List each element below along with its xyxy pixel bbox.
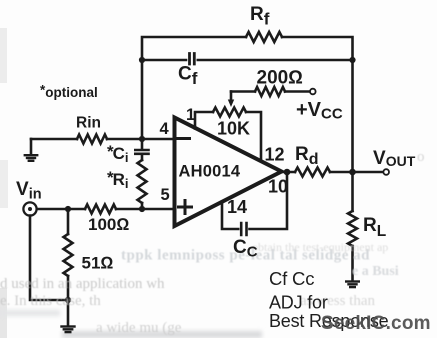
capacitor Ci <box>135 139 148 160</box>
svg-text:AH0014: AH0014 <box>179 163 241 181</box>
wire: Cf feedback line <box>142 59 353 62</box>
node: Ri bottom junction <box>139 206 145 212</box>
resistor 100ohm <box>85 205 116 214</box>
svg-text:Rin: Rin <box>76 115 101 132</box>
svg-text:5: 5 <box>161 186 170 204</box>
svg-text:SeekIC.com: SeekIC.com <box>321 313 431 334</box>
ground: below RL <box>346 280 359 282</box>
wire: to Vout terminal <box>353 171 384 174</box>
resistor Rd <box>295 168 330 177</box>
svg-text:Cf Cc: Cf Cc <box>269 268 314 289</box>
svg-text:10K: 10K <box>217 119 250 139</box>
node: output junction at pin 10 <box>284 169 291 176</box>
resistor 10K potentiometer body <box>213 108 246 117</box>
resistor Rf <box>246 32 282 42</box>
svg-text:51Ω: 51Ω <box>82 254 114 273</box>
node: Vin split junction <box>65 206 71 212</box>
svg-text:4: 4 <box>160 120 170 138</box>
svg-text:10: 10 <box>268 177 288 197</box>
resistor RL <box>351 172 354 211</box>
resistor Ri <box>138 160 147 203</box>
svg-text:RL: RL <box>363 215 386 240</box>
node: Cf line right junction <box>349 57 355 63</box>
svg-text:Vin: Vin <box>16 179 42 203</box>
resistor 200ohm <box>255 87 285 96</box>
terminal Vout open circle <box>383 169 389 175</box>
svg-text:Rd: Rd <box>295 144 319 168</box>
wire: pin 14 lead <box>222 202 238 230</box>
resistor Rin <box>77 135 107 144</box>
svg-text:e. In this case, th: e. In this case, th <box>0 293 101 309</box>
wire: Vin lower return loop <box>30 216 68 300</box>
svg-text:*Ci: *Ci <box>107 142 129 165</box>
wire: right column between Cf line and output <box>351 60 354 172</box>
wire: non-inverting input line <box>37 208 172 211</box>
node: Vout junction <box>349 169 356 176</box>
pin 4 minus symbol <box>178 137 190 140</box>
svg-text:14: 14 <box>227 197 247 217</box>
wire: wiper to 200ohm <box>231 90 255 93</box>
wire: feedback top loop Rf <box>142 37 353 139</box>
node: bottom ground junction <box>65 297 71 303</box>
wire: pot right side to pin 12 <box>246 112 261 161</box>
svg-text:+VCC: +VCC <box>296 99 343 123</box>
decorative scan artifacts on left edge <box>0 28 7 83</box>
svg-text:o: o <box>417 149 425 165</box>
svg-text:VOUT: VOUT <box>373 148 416 169</box>
svg-text:200Ω: 200Ω <box>257 68 303 89</box>
svg-text:*optional: *optional <box>40 83 98 101</box>
svg-text:1: 1 <box>186 106 195 124</box>
ground: at Rin input <box>30 139 33 154</box>
ground: bottom left <box>67 300 70 326</box>
resistor 51ohm <box>67 209 70 234</box>
svg-text:e a Busi: e a Busi <box>352 264 399 279</box>
svg-text:12: 12 <box>265 145 285 165</box>
wire: pin 1 lead <box>195 112 213 129</box>
op-amp U1 AH0014 triangle <box>175 118 282 227</box>
svg-text:*Ri: *Ri <box>107 168 129 191</box>
wire: inverting input line <box>31 138 172 141</box>
svg-text:Cf: Cf <box>178 64 198 89</box>
node: inverting input node <box>139 136 145 142</box>
terminal +Vcc open circle <box>310 89 316 95</box>
note text Cf Cc ADJ for Best Response <box>269 268 389 331</box>
wire: Cc to output node <box>250 173 288 229</box>
wire: Rd to Vout column <box>330 171 353 174</box>
wire: 200ohm to Vcc terminal <box>285 90 310 93</box>
svg-text:100Ω: 100Ω <box>88 215 129 234</box>
wire: output to Rd <box>281 171 295 174</box>
capacitor Cc <box>241 223 246 235</box>
svg-text:Rf: Rf <box>250 4 270 29</box>
connector Vin terminal <box>23 202 36 215</box>
svg-text:d used in an application wh: d used in an application wh <box>0 276 165 292</box>
pot wiper arrow <box>230 92 233 102</box>
svg-text:obtain the test-equipment ap: obtain the test-equipment ap <box>252 240 388 254</box>
svg-text:ADJ for: ADJ for <box>269 293 328 313</box>
node: Cf line left junction <box>139 57 145 63</box>
capacitor Cf <box>190 54 195 65</box>
svg-text:a wide mu (ge: a wide mu (ge <box>96 320 182 336</box>
pin 5 plus symbol <box>179 201 192 214</box>
decorative faint bleed-through (not labelled components) <box>0 149 425 336</box>
